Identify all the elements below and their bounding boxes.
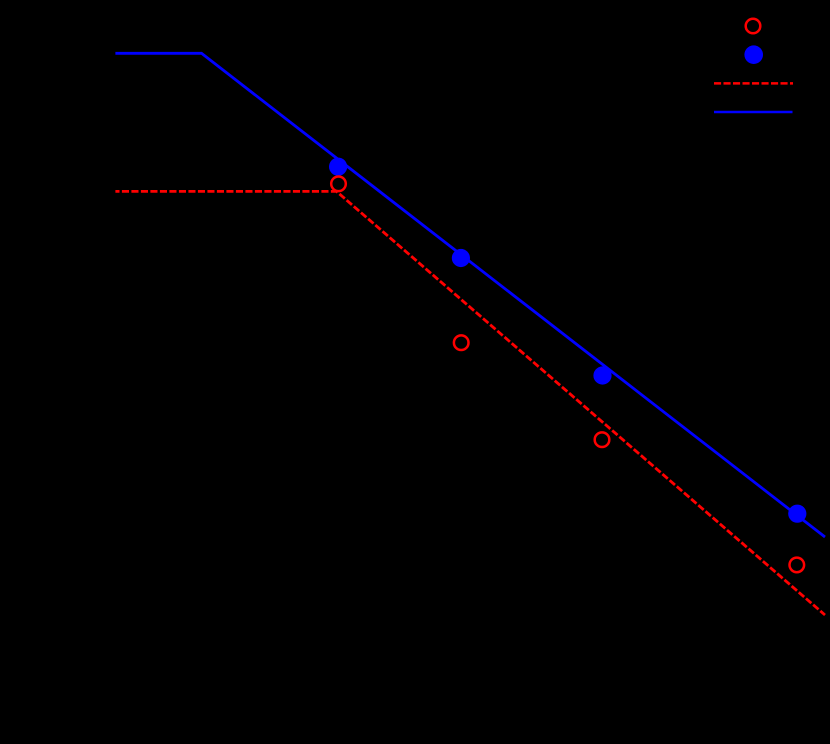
blue data point 1 [329, 158, 347, 176]
red data point 3 [595, 432, 610, 447]
blue solid fit line [115, 53, 825, 537]
legend sample: blue solid line [714, 111, 793, 114]
red data point 4 [790, 558, 805, 573]
legend sample: red dashed line [714, 82, 793, 85]
red data point 2 [454, 335, 469, 350]
legend marker: blue filled circle [744, 45, 763, 64]
red data point 1 [331, 177, 346, 192]
red dashed fit line [115, 191, 825, 615]
legend marker: red open circle [746, 19, 761, 34]
blue data point 4 [788, 505, 806, 523]
blue data point 2 [452, 249, 470, 267]
blue data point 3 [593, 366, 611, 384]
